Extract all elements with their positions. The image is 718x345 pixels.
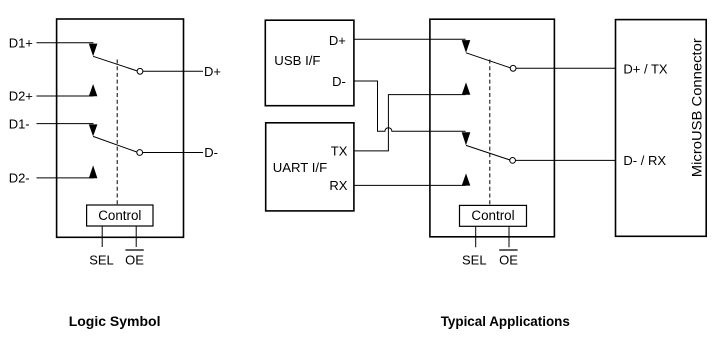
svg-text:OE: OE [499, 253, 518, 268]
svg-text:OE: OE [125, 253, 144, 268]
svg-text:D-: D- [204, 145, 218, 160]
svg-text:D2-: D2- [9, 171, 30, 186]
svg-text:TX: TX [331, 144, 348, 159]
svg-text:RX: RX [329, 178, 347, 193]
svg-text:UART I/F: UART I/F [273, 160, 327, 175]
svg-text:D1-: D1- [9, 116, 30, 131]
svg-text:D+: D+ [329, 33, 346, 48]
svg-text:D2+: D2+ [9, 89, 33, 104]
svg-text:SEL: SEL [89, 253, 114, 268]
svg-text:Logic Symbol: Logic Symbol [69, 313, 161, 329]
svg-text:SEL: SEL [462, 253, 487, 268]
svg-text:D1+: D1+ [9, 35, 33, 50]
svg-text:Control: Control [98, 208, 141, 223]
svg-text:D-: D- [332, 74, 346, 89]
svg-text:USB I/F: USB I/F [274, 53, 320, 68]
svg-text:D+ / TX: D+ / TX [623, 62, 668, 77]
svg-text:D+: D+ [204, 64, 221, 79]
svg-text:Typical Applications: Typical Applications [441, 314, 570, 329]
svg-text:D- / RX: D- / RX [623, 153, 666, 168]
svg-text:Control: Control [471, 208, 514, 223]
svg-text:MicroUSB Connector: MicroUSB Connector [690, 38, 705, 178]
